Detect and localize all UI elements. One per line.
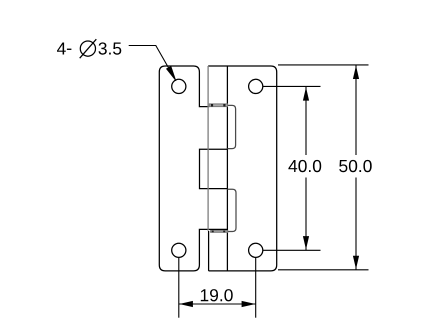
hole top-left xyxy=(172,79,186,93)
dimension 50.0 arrows xyxy=(353,66,359,79)
dimension 40.0 text xyxy=(288,160,321,172)
callout text 4- dia 3.5 xyxy=(57,42,121,54)
middle knuckle rectangle of left leaf xyxy=(200,149,228,188)
dimension 50.0 text xyxy=(339,160,372,172)
upper knuckle joint band xyxy=(209,104,227,107)
leader line for hole callout xyxy=(129,46,172,74)
dimension 50.0 line xyxy=(355,65,357,270)
hole bottom-right xyxy=(249,243,263,257)
dimension 19.0 text xyxy=(201,289,233,301)
dimension 19.0 extension line left xyxy=(178,258,180,318)
dimension 19.0 extension line right xyxy=(255,258,257,318)
knuckle curl tab upper xyxy=(227,105,235,148)
dimension 40.0 line xyxy=(305,86,307,250)
barrel tangent line (gray) xyxy=(207,66,209,231)
dimension 40.0 extension line bottom xyxy=(263,249,321,251)
left leaf plate outline xyxy=(159,66,227,271)
barrel main vertical edge xyxy=(226,66,228,271)
dimension 40.0 arrows xyxy=(303,87,309,100)
dimension 40.0 extension line top xyxy=(263,85,321,87)
leader arrowhead xyxy=(166,66,176,81)
diameter symbol xyxy=(80,39,97,58)
dimension 50.0 extension line bottom xyxy=(278,269,369,271)
dimension 50.0 extension line top xyxy=(278,64,369,66)
dimension 19.0 line xyxy=(179,303,256,305)
hole top-right xyxy=(249,79,263,93)
right leaf plate outline xyxy=(208,66,277,271)
dimension 19.0 arrows xyxy=(179,301,193,307)
barrel visible edge bottom segment xyxy=(208,231,210,271)
hole bottom-left xyxy=(172,243,186,257)
lower knuckle joint band xyxy=(211,231,228,233)
knuckle curl tab lower xyxy=(227,189,236,231)
